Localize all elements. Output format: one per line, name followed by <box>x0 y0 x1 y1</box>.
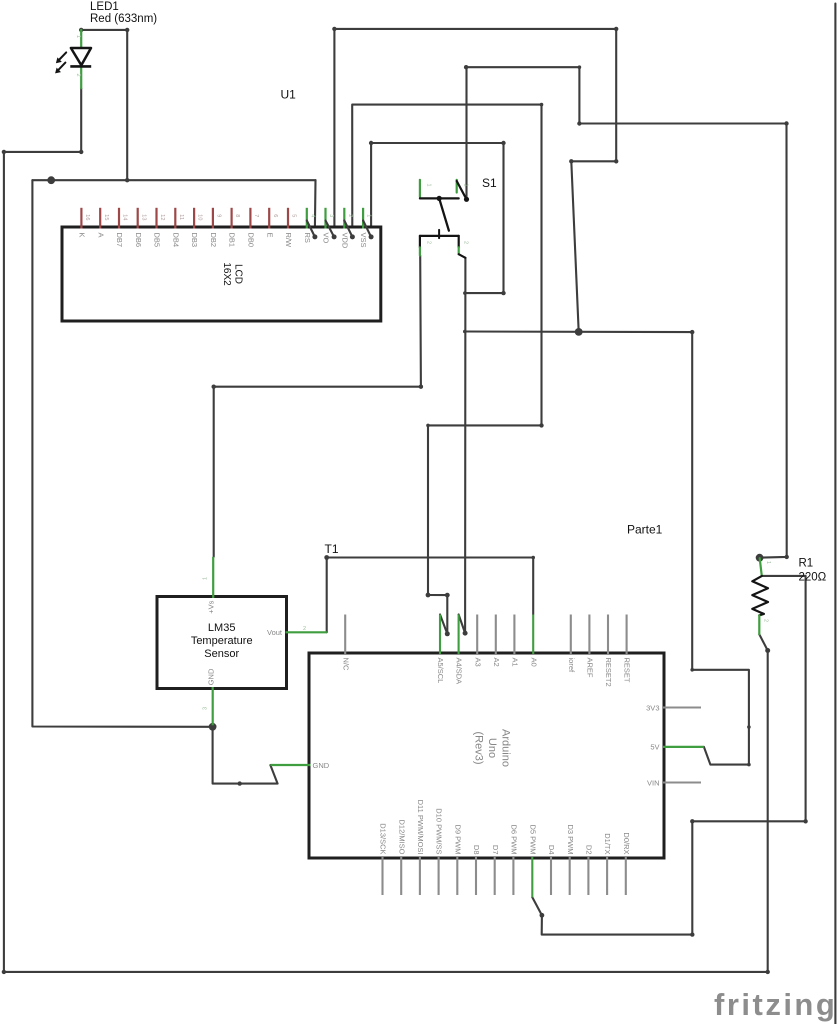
Arduino pin leg RESET2 (top) <box>607 615 609 655</box>
Arduino pin leg D5 PWM (bottom) <box>531 857 533 897</box>
Arduino pin leg 3V3 <box>663 706 701 708</box>
Arduino pin leg D7 (bottom) <box>494 857 496 895</box>
svg-text:1: 1 <box>462 184 468 187</box>
wire T1: LM35 Vout to Arduino A0 <box>327 558 534 633</box>
wire 5V riser: Arduino 5V up to y=332 net <box>692 332 749 764</box>
LM35 pin 2 leg (Vout) <box>286 631 327 633</box>
svg-text:1: 1 <box>426 184 432 187</box>
LM35 T1 body <box>157 597 287 689</box>
svg-text:Temperature: Temperature <box>191 635 253 647</box>
LCD U1 pin 10 leg (DB3) <box>193 208 195 229</box>
svg-text:Sensor: Sensor <box>204 648 239 660</box>
LCD U1 pin 2 leg (VDD) <box>343 208 345 229</box>
node junction at (51,180) <box>47 176 55 184</box>
svg-text:S1: S1 <box>482 176 497 190</box>
S1 tick on bottom bar <box>438 230 440 238</box>
wire diagonals into LCD pins RS VO VDD VSS <box>307 221 315 237</box>
svg-text:VSS: VSS <box>359 233 368 248</box>
svg-text:DB5: DB5 <box>153 233 162 248</box>
LCD U1 pin 11 leg (DB4) <box>174 208 176 229</box>
svg-text:9: 9 <box>216 214 222 217</box>
svg-text:D9 PWM: D9 PWM <box>453 825 462 855</box>
svg-text:16: 16 <box>84 214 90 220</box>
svg-text:(Rev3): (Rev3) <box>473 731 485 764</box>
svg-text:2: 2 <box>462 241 468 244</box>
svg-text:10: 10 <box>197 214 203 220</box>
svg-text:D0/RX: D0/RX <box>622 832 631 854</box>
node junction R1 top (759.6,557.7) <box>756 554 764 562</box>
svg-text:AREF: AREF <box>586 658 595 678</box>
Arduino pin leg D13/SCK (bottom) <box>381 857 383 895</box>
LED1 emission arrows <box>59 52 66 59</box>
svg-text:D8: D8 <box>472 845 481 855</box>
svg-text:4: 4 <box>309 214 315 217</box>
svg-text:VIN: VIN <box>647 778 660 787</box>
svg-text:Vout: Vout <box>267 628 283 637</box>
wire right-edge vertical (cropped net) <box>834 4 836 1024</box>
wire LCD VO riser to top horizontal <box>334 29 616 237</box>
svg-text:DB0: DB0 <box>247 233 256 248</box>
LCD U1 pin 4 leg (RS) <box>306 208 308 229</box>
svg-text:D6 PWM: D6 PWM <box>510 825 519 855</box>
wire slanted from (571,161) to junction <box>571 29 616 332</box>
wire S1 top contact up and around to R1 top junction <box>467 67 787 557</box>
svg-text:T1: T1 <box>325 542 339 556</box>
LM35 pin 3 leg (GND) <box>212 687 214 725</box>
S1 pin leg bottom-left (2) <box>419 236 421 247</box>
svg-text:D7: D7 <box>491 845 500 855</box>
svg-text:2: 2 <box>347 214 353 217</box>
svg-text:16X2: 16X2 <box>221 262 232 286</box>
svg-text:Uno: Uno <box>486 738 498 758</box>
wire branch y=332 horizontal to 5V riser <box>465 330 692 333</box>
Arduino pin leg A1 (top) <box>513 615 515 655</box>
Arduino pin leg D4 (bottom) <box>550 857 552 895</box>
svg-text:ioref: ioref <box>567 658 576 674</box>
svg-text:DB4: DB4 <box>171 233 180 248</box>
svg-text:D5 PWM: D5 PWM <box>528 825 537 855</box>
LCD U1 pin 13 leg (DB6) <box>137 208 139 229</box>
svg-text:GND: GND <box>206 668 215 685</box>
svg-text:1: 1 <box>75 35 81 38</box>
svg-text:3: 3 <box>203 707 209 710</box>
svg-text:Arduino: Arduino <box>500 729 512 767</box>
wire diagonal into A5/SCL pin <box>440 615 447 634</box>
S1 top-right contact diagonal + node <box>457 181 467 199</box>
Arduino pin leg D2 (bottom) <box>587 857 589 895</box>
svg-text:A1: A1 <box>511 658 520 667</box>
Arduino pin leg D3 PWM (bottom) <box>569 857 571 895</box>
svg-text:R1: R1 <box>799 558 814 570</box>
svg-text:D12/MISO: D12/MISO <box>397 819 406 854</box>
R1 pin 2 leg (green) <box>758 615 760 634</box>
wire diagonal into A4/SDA pin <box>459 615 466 634</box>
LCD U1 pin 16 leg (K) <box>80 208 82 229</box>
svg-text:D4: D4 <box>547 845 556 855</box>
svg-text:3V3: 3V3 <box>646 703 659 712</box>
LED1 triangle (diode) <box>71 48 91 65</box>
svg-text:6: 6 <box>272 214 278 217</box>
svg-text:VO: VO <box>322 233 331 244</box>
svg-text:Parte1: Parte1 <box>627 523 663 537</box>
LCD U1 pin 3 leg (VO) <box>324 208 326 229</box>
svg-text:2: 2 <box>75 74 81 77</box>
svg-text:8: 8 <box>234 214 240 217</box>
LM35 pin 1 leg (+Vs) <box>212 557 214 598</box>
svg-text:N/C: N/C <box>341 658 350 672</box>
svg-text:D10 PWM/SS: D10 PWM/SS <box>435 808 444 854</box>
LCD U1 pin 12 leg (DB5) <box>155 208 157 229</box>
LED LED1 <box>55 30 91 88</box>
wire S1 bottom-right pin down to A4/SDA <box>464 258 466 633</box>
R1 zigzag body <box>752 576 768 615</box>
svg-text:A0: A0 <box>529 658 538 667</box>
svg-text:RS: RS <box>303 233 312 243</box>
S1 lever pivot node <box>437 196 442 201</box>
svg-text:15: 15 <box>103 214 109 220</box>
svg-text:LCD: LCD <box>233 264 244 284</box>
S1 pin leg bottom-right (2) <box>458 236 460 247</box>
wire left drop x=32 to LM35 GND net <box>32 180 212 727</box>
svg-text:D1/TX: D1/TX <box>603 833 612 854</box>
svg-text:D2: D2 <box>585 845 594 855</box>
svg-text:LED1: LED1 <box>90 1 119 13</box>
wire LED1 anode to node at y=180 <box>81 30 127 180</box>
wire net RS/GND horizontal y=180 <box>32 179 315 181</box>
svg-text:DB2: DB2 <box>209 233 218 248</box>
svg-text:D13/SCK: D13/SCK <box>379 823 388 854</box>
wire diagonal into R1 pin2 <box>759 634 767 650</box>
LCD U1 pin 5 leg (R/W) <box>287 208 289 229</box>
svg-text:14: 14 <box>122 214 128 220</box>
Arduino pin leg D9 PWM (bottom) <box>456 857 458 895</box>
LCD U1 pin 14 leg (DB7) <box>118 208 120 229</box>
Arduino pin leg D1/TX (bottom) <box>606 857 608 895</box>
svg-text:12: 12 <box>159 214 165 220</box>
svg-text:13: 13 <box>140 214 146 220</box>
Arduino pin leg GND (left) <box>270 764 310 766</box>
node junction (578.7,331.9) <box>575 328 583 336</box>
svg-text:2: 2 <box>762 619 768 622</box>
svg-text:1: 1 <box>366 214 372 217</box>
svg-text:RESET: RESET <box>623 658 632 683</box>
Arduino pin leg 5V <box>663 746 704 748</box>
svg-text:DB7: DB7 <box>115 233 124 248</box>
S1 pin leg top-right (1) <box>456 180 458 193</box>
svg-text:fritzing: fritzing <box>714 987 837 1022</box>
Arduino pin leg D11 PWM/MOSI (bottom) <box>419 857 421 895</box>
Arduino pin leg VIN <box>663 781 701 783</box>
svg-text:VDD: VDD <box>340 233 349 249</box>
svg-text:1: 1 <box>765 561 771 564</box>
svg-text:LM35: LM35 <box>208 622 236 634</box>
LCD U1 pin 1 leg (VSS) <box>362 208 364 229</box>
LCD U1 pin 8 leg (DB1) <box>231 208 233 229</box>
svg-text:A3: A3 <box>473 658 482 667</box>
svg-text:A4/SDA: A4/SDA <box>455 658 464 685</box>
LCD U1 pin 7 leg (DB0) <box>249 208 251 229</box>
LCD U1 body <box>62 227 381 321</box>
wire S1 bottom-left pin down to LM35 +Vs <box>214 256 421 557</box>
svg-text:R/W: R/W <box>284 233 293 249</box>
svg-text:2: 2 <box>303 626 306 632</box>
svg-text:E: E <box>265 233 274 238</box>
LCD U1 pin 15 leg (A) <box>99 208 101 229</box>
svg-text:5: 5 <box>291 214 297 217</box>
Arduino pin leg D0/RX (bottom) <box>625 857 627 895</box>
svg-text:11: 11 <box>178 214 184 220</box>
Arduino pin leg A4/SDA (top) <box>458 615 460 655</box>
svg-text:7: 7 <box>253 214 259 217</box>
Arduino pin leg ioref (top) <box>570 615 572 655</box>
svg-text:5V: 5V <box>650 743 659 752</box>
Arduino pin leg D10 PWM/SS (bottom) <box>438 857 440 895</box>
wire LED1 cathode down-left-bottom to R1 pin2 <box>4 88 768 972</box>
svg-text:A2: A2 <box>492 658 501 667</box>
Arduino pin leg N/C (top) <box>344 615 346 655</box>
pushbutton S1 <box>420 180 469 258</box>
Arduino pin leg AREF (top) <box>588 615 590 655</box>
svg-text:K: K <box>78 233 87 238</box>
node corner VO riser top <box>332 27 336 31</box>
svg-text:D11 PWM/MOSI: D11 PWM/MOSI <box>416 800 425 855</box>
Arduino pin leg D12/MISO (bottom) <box>400 857 402 895</box>
S1 top contact bar <box>420 197 459 199</box>
svg-text:Red (633nm): Red (633nm) <box>90 13 157 25</box>
svg-text:DB1: DB1 <box>228 233 237 248</box>
Arduino pin leg D8 (bottom) <box>475 857 477 895</box>
svg-text:3: 3 <box>328 214 334 217</box>
svg-text:DB6: DB6 <box>134 233 143 248</box>
Arduino pin leg D6 PWM (bottom) <box>512 857 514 895</box>
wire D5 to R1 pin1 <box>532 576 805 935</box>
S1 pin leg top-left (1) <box>419 180 421 197</box>
node junction at (127,180) <box>125 178 129 182</box>
Arduino pin leg A2 (top) <box>495 615 497 655</box>
svg-text:+Vs: +Vs <box>206 600 215 613</box>
LCD U1 pin 9 leg (DB2) <box>212 208 214 229</box>
wire branch y=293 to VSS riser <box>371 143 503 293</box>
svg-text:RESET2: RESET2 <box>604 658 613 687</box>
svg-text:GND: GND <box>313 761 330 770</box>
resistor R1 <box>752 558 771 634</box>
S1 lever <box>439 198 449 230</box>
Arduino Parte1 body <box>309 653 664 858</box>
svg-text:A: A <box>96 233 105 238</box>
svg-text:A5/SCL: A5/SCL <box>436 658 445 684</box>
node junction LM35 GND (212,727) <box>209 723 217 731</box>
svg-text:2: 2 <box>426 241 432 244</box>
S1 bottom contact bar <box>420 235 459 237</box>
Arduino pin leg A3 (top) <box>476 615 478 655</box>
Arduino pin leg A0 (top) <box>532 615 534 655</box>
LCD U1 pin 6 leg (E) <box>268 208 270 229</box>
svg-text:D3 PWM: D3 PWM <box>566 825 575 855</box>
LED1 cathode bar <box>70 65 91 68</box>
svg-text:DB3: DB3 <box>190 233 199 248</box>
svg-text:1: 1 <box>203 577 209 580</box>
wire LCD VDD riser across to A5/SCL <box>352 105 541 634</box>
wire LM35 GND junction down to Arduino GND zigzag <box>213 727 278 784</box>
R1 pin 1 leg (green) <box>760 558 762 575</box>
wire RS drop into LCD pin 4 <box>314 180 317 236</box>
svg-text:220Ω: 220Ω <box>799 572 827 584</box>
Arduino pin leg A5/SCL (top) <box>439 615 441 655</box>
svg-text:U1: U1 <box>281 88 297 102</box>
Arduino pin leg RESET (top) <box>626 615 628 655</box>
